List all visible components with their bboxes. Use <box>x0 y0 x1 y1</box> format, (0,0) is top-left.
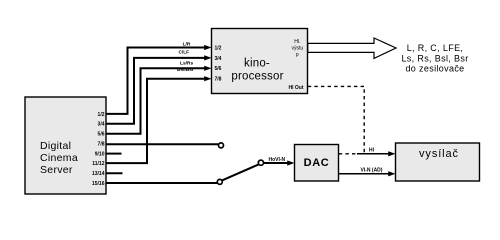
svg-text:5/6: 5/6 <box>98 132 105 138</box>
svg-text:3/4: 3/4 <box>98 122 105 128</box>
svg-text:L, R, C, LFE,: L, R, C, LFE, <box>407 43 464 53</box>
svg-text:processor: processor <box>231 71 283 83</box>
block: vysilac (transmitter) <box>396 143 480 181</box>
svg-text:p: p <box>296 52 299 58</box>
svg-text:Ls/Rs: Ls/Rs <box>180 61 193 67</box>
svg-text:HoVI-N: HoVI-N <box>268 157 285 163</box>
switch lever: lower contact to pivot <box>222 164 259 180</box>
svg-text:Ls, Rs, Bsl, Bsr: Ls, Rs, Bsl, Bsr <box>401 53 468 63</box>
wire: dashed Hl segment from DAC edge <box>339 153 358 155</box>
svg-text:DAC: DAC <box>304 157 330 169</box>
svg-text:1/2: 1/2 <box>215 45 222 51</box>
svg-text:11/12: 11/12 <box>92 161 104 167</box>
wire: server 15/16 to switch contact (lower) <box>106 182 217 184</box>
wire: server 13/14 stub <box>106 172 123 174</box>
wire: Hl into vysilac <box>357 151 396 156</box>
wire: server 9/10 stub <box>106 153 122 155</box>
pin label: kino-processor Hl. vystup (main output) <box>291 39 303 58</box>
wire: server 7/8 to switch contact (upper) <box>106 143 219 145</box>
label: output channels text <box>401 43 468 73</box>
svg-text:15/16: 15/16 <box>92 181 105 187</box>
svg-text:7/8: 7/8 <box>98 141 105 147</box>
svg-text:vysílač: vysílač <box>419 148 459 160</box>
wire: server 3/4 to kino-processor 3/4 <box>106 55 212 124</box>
wire: server 11/12 to kino-processor 7/8 <box>106 76 212 163</box>
svg-text:Server: Server <box>40 164 73 176</box>
svg-text:do zesilovače: do zesilovače <box>405 63 464 73</box>
switch contact: upper open circle <box>219 143 224 148</box>
wire: DAC output V1-N (AD) to vysilac <box>339 171 396 176</box>
switch contact: lower open circle <box>217 179 222 184</box>
svg-text:Hl Out: Hl Out <box>289 85 304 91</box>
svg-text:Digital: Digital <box>40 140 71 152</box>
svg-text:C/LF: C/LF <box>178 49 189 55</box>
svg-text:Bsl/Bsr: Bsl/Bsr <box>177 67 194 73</box>
svg-text:5/6: 5/6 <box>215 66 222 72</box>
svg-text:1/2: 1/2 <box>98 112 105 118</box>
block: DAC <box>295 145 339 182</box>
svg-text:L/R: L/R <box>183 42 191 48</box>
wire: kino-processor Hl Out dashed down to Hl line <box>308 86 364 153</box>
svg-text:Hl.: Hl. <box>294 39 300 45</box>
wire: switch pivot to DAC input <box>264 160 295 165</box>
wire: server 5/6 to kino-processor 5/6 <box>106 66 212 134</box>
wire: server 1/2 to kino-processor 1/2 <box>106 45 212 114</box>
svg-text:3/4: 3/4 <box>215 56 222 62</box>
svg-text:9/10: 9/10 <box>95 151 105 157</box>
svg-text:7/8: 7/8 <box>215 77 222 83</box>
pin labels: server outputs 1/2 .. 15/16 <box>92 112 105 187</box>
svg-text:Cinema: Cinema <box>40 152 78 164</box>
svg-text:výstu: výstu <box>291 45 303 51</box>
svg-text:kino-: kino- <box>244 57 270 69</box>
hollow arrow: kino-processor main output to amplifiers <box>308 38 396 58</box>
svg-text:Hl: Hl <box>369 147 375 153</box>
svg-text:13/14: 13/14 <box>92 171 105 177</box>
svg-text:VI-N (AD): VI-N (AD) <box>361 167 383 173</box>
block: kino-processor U1 <box>212 29 308 94</box>
block: Digital Cinema Server <box>25 97 106 194</box>
switch pivot: open circle <box>258 160 263 165</box>
pin labels: kino-processor inputs 1/2 .. 7/8 <box>215 45 222 82</box>
